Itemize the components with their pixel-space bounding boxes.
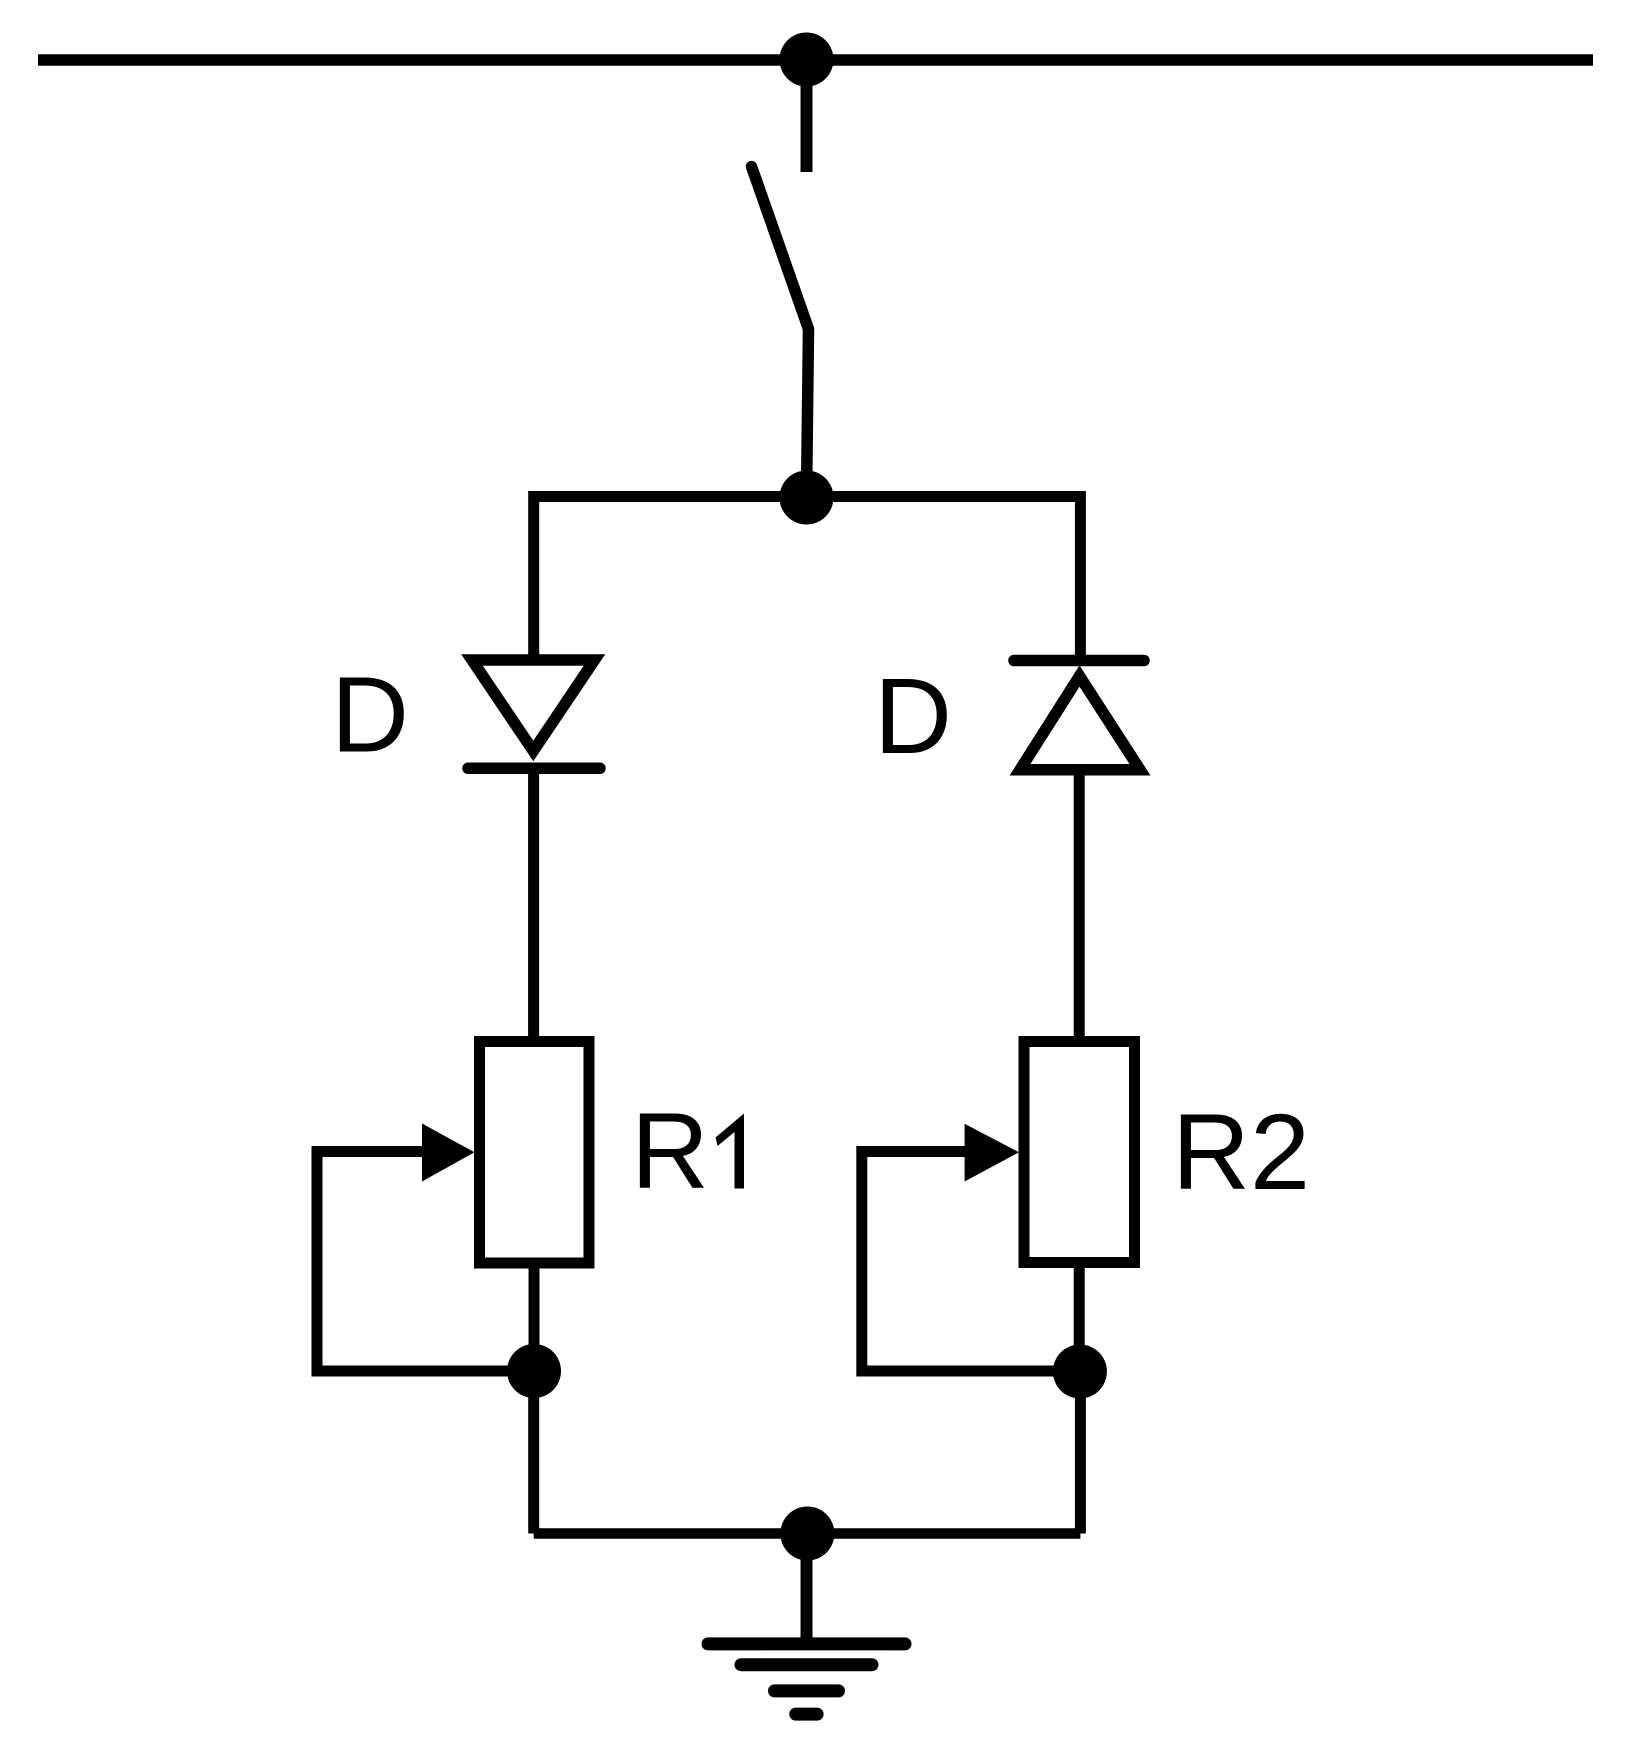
wire R1 bottom xyxy=(529,1263,540,1371)
potentiometer R1 body xyxy=(480,1042,590,1264)
wire ground stem xyxy=(801,1534,813,1644)
wire R1 to bottom rail xyxy=(528,1371,539,1534)
node top bus junction xyxy=(780,33,834,87)
diode D right (cathode top, pointing up) xyxy=(1014,661,1144,770)
potentiometer R2 body xyxy=(1024,1042,1135,1263)
wire R2 to bottom rail xyxy=(1075,1371,1086,1534)
svg-text:R2: R2 xyxy=(1172,1091,1310,1212)
node R2 bottom junction xyxy=(1053,1345,1107,1399)
wire R2 wiper loop xyxy=(862,1152,1080,1372)
svg-text:D: D xyxy=(331,654,409,775)
wire switch top stub xyxy=(801,60,813,172)
node bottom ground junction xyxy=(780,1507,834,1561)
wire top parallel rail xyxy=(534,497,1081,661)
wire right diode to R2 xyxy=(1074,770,1085,1041)
R1 wiper arrowhead xyxy=(422,1124,475,1182)
svg-text:D: D xyxy=(874,655,952,776)
node parallel top junction xyxy=(780,471,834,525)
wire R1 wiper loop xyxy=(317,1152,534,1372)
diode D left (anode top, pointing down) xyxy=(468,660,600,768)
R2 wiper arrowhead xyxy=(965,1124,1019,1182)
wire top supply bus xyxy=(38,54,1593,66)
wire bottom rail xyxy=(534,1528,1081,1539)
wire R2 bottom xyxy=(1074,1263,1085,1371)
wire left diode to R1 xyxy=(528,763,539,1041)
node R1 bottom junction xyxy=(507,1344,561,1398)
svg-text:R: R xyxy=(631,1090,709,1211)
label R1 digit 1 xyxy=(716,1114,745,1189)
ground xyxy=(708,1644,905,1714)
switch S1 blade xyxy=(752,167,809,498)
